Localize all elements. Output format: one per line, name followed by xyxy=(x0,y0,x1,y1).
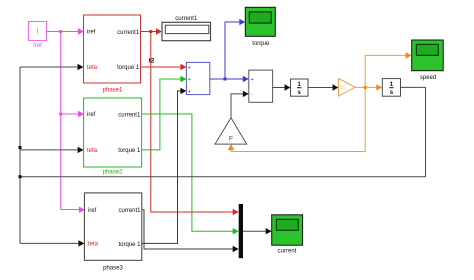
svg-text:torque: torque xyxy=(252,41,270,47)
subsystem block phase1 xyxy=(84,15,141,94)
wire sum3 output (blue) to white sum and up to torque scope xyxy=(210,19,249,82)
wire gain output (orange) to integrator2, junction xyxy=(228,52,412,151)
svg-text:Iref: Iref xyxy=(33,43,42,49)
wire phase3 torque1 up to sum3 input 3 xyxy=(142,88,187,244)
wire iref net (magenta) from Iref to phase1/phase2/phase3 iref inputs xyxy=(47,28,85,213)
svg-text:phase1: phase1 xyxy=(103,88,123,94)
wire phase3 current1 down to mux input 3 xyxy=(142,210,239,253)
wire gain F output up to white sum input 2 xyxy=(231,91,249,118)
svg-text:F: F xyxy=(229,136,233,143)
svg-text:torque 1: torque 1 xyxy=(117,65,140,71)
wire phase2 torque1 (green) to sum3 input 2 xyxy=(142,76,187,150)
scope block speed xyxy=(412,40,444,81)
svg-text:iref: iref xyxy=(87,30,96,36)
scope block torque xyxy=(245,7,275,47)
integrator block 1/s (first) xyxy=(291,79,309,96)
svg-text:current1: current1 xyxy=(118,112,141,118)
wire phase1 torque1 t2 (red) to sum3 input 1 xyxy=(141,58,187,71)
svg-text:current1: current1 xyxy=(117,30,140,36)
svg-text:+: + xyxy=(188,89,191,95)
svg-text:iref: iref xyxy=(87,112,96,118)
svg-text:teta: teta xyxy=(88,242,99,248)
svg-text:phase3: phase3 xyxy=(103,266,123,272)
svg-text:torque 1: torque 1 xyxy=(118,148,141,154)
scope block current xyxy=(272,215,303,255)
svg-text:1/J: 1/J xyxy=(340,85,347,91)
subsystem block phase2 xyxy=(84,98,142,176)
svg-text:+: + xyxy=(251,77,254,83)
svg-text:speed: speed xyxy=(420,75,436,81)
sum block (3 torques, blue) xyxy=(186,62,209,94)
sum block torque minus friction (white) xyxy=(249,70,273,102)
svg-text:+: + xyxy=(188,65,191,71)
svg-text:t2: t2 xyxy=(149,58,155,65)
svg-text:I: I xyxy=(37,29,39,36)
gain block 1/J (orange triangle) xyxy=(339,79,356,97)
wire phase2 current1 (green) down to mux input 2 xyxy=(142,114,239,234)
svg-text:+: + xyxy=(188,77,191,83)
subsystem block phase3 xyxy=(84,193,141,272)
mux block (vertical bar) xyxy=(239,204,243,258)
gain block F (friction, triangle pointing up) xyxy=(215,118,247,144)
source block Iref xyxy=(29,22,47,50)
wire mux output to current scope xyxy=(243,228,272,234)
svg-text:phase2: phase2 xyxy=(103,170,123,176)
wire white sum output to integrator1 xyxy=(273,84,291,90)
svg-text:current1: current1 xyxy=(118,208,141,214)
wire teta feedback from integrator2 output, down/left and to teta inputs xyxy=(19,64,426,247)
svg-text:iref: iref xyxy=(88,208,97,214)
svg-text:torque 1: torque 1 xyxy=(118,242,141,248)
wire integrator1 output to gain 1/J xyxy=(308,84,339,90)
svg-text:teta: teta xyxy=(87,65,98,71)
integrator block 1/s (second) xyxy=(382,79,400,97)
display block current1 xyxy=(162,16,211,40)
svg-text:current: current xyxy=(278,248,297,254)
svg-text:teta: teta xyxy=(87,148,98,154)
svg-text:current1: current1 xyxy=(175,16,198,22)
wire phase1 current1 (red) to display and down to mux xyxy=(141,28,239,215)
